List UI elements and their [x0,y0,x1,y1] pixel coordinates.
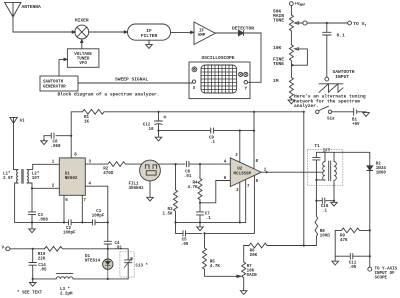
oscilloscope [189,62,250,99]
svg-text:A1: A1 [20,119,26,123]
svg-text:1N34: 1N34 [376,167,387,171]
svg-text:R10: R10 [38,253,46,257]
svg-text:* SEE TEXT: * SEE TEXT [17,290,43,295]
IF filter block [128,24,171,40]
capacitor C11 [335,254,370,259]
resistor R1 [83,109,105,114]
svg-text:.05: .05 [181,243,189,247]
ground (FIL1) [147,181,154,201]
svg-text:.068: .068 [38,219,49,223]
svg-text:FILTER: FILTER [141,33,158,39]
top supply rail [71,112,304,158]
wire L2 top to U1 pin1 [27,164,59,169]
svg-text:C8: C8 [53,141,59,145]
svg-text:T1: T1 [315,145,321,149]
T1 core [329,161,331,181]
capacitor C14 [29,249,36,279]
svg-text:10: 10 [149,128,155,132]
wire U1 pin3 + resistor R2 [85,162,141,167]
svg-text:SAWTOOTH: SAWTOOTH [43,81,64,85]
svg-text:D2: D2 [376,162,382,166]
wire U2 pin3 [239,182,241,223]
ground (C12) [155,131,162,141]
svg-text:10T: 10T [32,177,40,181]
svg-text:.068: .068 [51,145,62,149]
svg-text:L2*: L2* [32,172,40,177]
ground (C3) [29,222,36,232]
IC U2 MC1350P [230,158,261,187]
switch S1a [316,106,332,113]
svg-text:C9: C9 [209,137,215,141]
potentiometer 10K FINE TUNE [289,31,307,65]
wire D2 down to scope terminal [369,230,371,267]
svg-text:GAIN: GAIN [247,274,258,278]
svg-text:1.5K: 1.5K [162,212,173,216]
bottom rail with L3 [33,278,57,280]
svg-text:.01: .01 [184,175,192,179]
ground (R7) [240,289,247,295]
capacitor C10 [316,198,334,203]
wire L3 to D1 [73,278,128,280]
svg-text:REF: REF [300,3,306,7]
ground (C14) [29,279,36,286]
svg-text:VOLTAGE: VOLTAGE [74,53,92,57]
svg-text:MC1350P: MC1350P [234,172,252,176]
capacitor C7 [196,203,203,223]
terminal scope output [368,267,372,271]
wire U2 pin5 / AGC line [176,175,255,233]
svg-text:FIL1: FIL1 [129,182,140,186]
wire detector to scope Y [248,33,261,82]
ground (IF filter) [146,40,153,48]
svg-text:T: T [364,23,366,27]
svg-text:10K: 10K [273,45,282,51]
wire U2 pin7 [245,179,247,222]
wire FIL1 to C6 [158,163,185,165]
mixer [72,25,89,39]
potentiometer 50K MAIN TUNE [289,15,307,31]
terminal VT [6,247,10,251]
wire L2 bottom to U1 pin2 [27,183,59,188]
wire sweep signal [78,82,192,84]
wiper arrow into R7 [237,275,241,277]
svg-text:TO V: TO V [353,21,364,27]
svg-text:MIXER: MIXER [75,18,89,24]
resistor R5 [203,233,237,276]
svg-text:C4: C4 [115,242,121,246]
wire R8 to T1 [315,180,317,201]
svg-text:C1: C1 [96,210,102,214]
svg-text:C13 *: C13 * [136,263,149,268]
svg-text:R9: R9 [340,235,346,239]
svg-text:R2: R2 [103,168,109,172]
antenna [5,2,21,32]
block VFO [67,49,99,68]
T1 internal capacitor [313,152,320,180]
wire [290,6,292,16]
svg-text:R6: R6 [250,249,256,253]
IC U1 NE602 [59,158,85,195]
battery B1 [332,108,366,115]
svg-text:.01: .01 [115,247,123,251]
svg-text:GENERATOR: GENERATOR [43,85,66,89]
resistor R9 [335,228,370,233]
svg-text:TUNE: TUNE [273,61,284,67]
terminal +Vref [290,2,294,6]
T1 secondary [334,152,336,200]
wire U1 pin4 down [85,186,108,241]
svg-text:100pF: 100pF [92,214,105,218]
resistor 1M [289,65,293,99]
wire U1 pin7 [81,195,83,222]
svg-text:NTE614: NTE614 [85,259,101,263]
svg-text:AMP: AMP [198,34,206,38]
svg-text:analyzer.: analyzer. [294,103,319,109]
svg-text:C3: C3 [38,214,44,218]
ground rail left [15,221,108,223]
wire R10 node to trimmer [108,249,128,260]
ceramic filter FIL1 [140,160,161,181]
svg-text:.05: .05 [39,269,47,273]
svg-text:IF: IF [199,29,205,33]
svg-text:R4: R4 [192,181,198,185]
T1 primary [316,152,325,180]
svg-text:INPUT OF: INPUT OF [375,272,396,276]
resistor R4 [198,164,202,203]
svg-text:4.7K: 4.7K [210,265,221,269]
potentiometer R7 [242,246,246,289]
svg-text:D1: D1 [85,255,91,259]
svg-text:4.7K: 4.7K [187,186,198,190]
svg-text:TO Y-AXIS: TO Y-AXIS [375,267,398,271]
svg-text:C5: C5 [182,238,188,242]
trimmer C13 [120,252,134,279]
svg-text:Block diagram of a spectrum an: Block diagram of a spectrum analyzer. [58,92,160,98]
resistor R10 [45,246,108,251]
svg-text:455kHz: 455kHz [129,186,145,191]
diode D2 [367,152,373,230]
svg-text:T: T [5,247,7,251]
svg-text:C11: C11 [349,262,357,266]
svg-text:C2: C2 [66,227,72,231]
svg-text:470Ω: 470Ω [103,172,114,176]
capacitor C6 [186,161,230,166]
svg-text:.05: .05 [349,266,357,270]
capacitor C8 [44,133,71,138]
transformer L1 [17,170,18,183]
RIGHT TUNING NETWORK [288,2,351,104]
ground (C8) [41,136,48,145]
wire mixer to VFO [81,39,83,49]
svg-text:U1: U1 [65,173,71,177]
transformer core [22,169,23,183]
svg-text:L1*: L1* [3,172,11,177]
ground (C11) [332,256,339,265]
svg-text:22K: 22K [38,257,46,261]
wire sawtooth to VFO [59,59,64,76]
svg-text:B1: B1 [352,118,358,122]
ground (B1) [363,112,370,117]
svg-text:IFT: IFT [323,149,331,153]
detector diode [215,30,261,36]
schematic text labels [2,116,398,296]
capacitor C9 [211,128,214,133]
svg-text:U2: U2 [237,168,243,172]
svg-text:OSCILLOSCOPE: OSCILLOSCOPE [201,55,234,61]
transformer L2 [27,170,28,183]
capacitor 0.1 [323,23,331,77]
svg-text:C14: C14 [38,264,46,268]
svg-text:R7: R7 [247,265,253,269]
ground (C10) [331,201,338,206]
wire U1 pin6 [63,195,65,222]
svg-text:100Ω: 100Ω [320,235,331,239]
svg-text:C6: C6 [185,170,191,174]
svg-text:1K: 1K [84,120,90,124]
ground (1M) [288,99,295,104]
svg-text:R3: R3 [167,208,173,212]
svg-text:C10: C10 [321,205,329,209]
wire L1 bottom to ground rail [15,183,18,222]
capacitor C3 [28,188,35,222]
svg-text:.1: .1 [210,141,216,145]
transformer T1 box [308,150,343,186]
svg-text:S1a: S1a [327,118,335,122]
block sawtooth generator [40,76,78,91]
capacitor C12 [155,112,167,131]
wire U2 pin2 [239,131,241,163]
terminal TO VT [348,21,352,25]
resistor R3 [174,164,178,222]
svg-text:R5: R5 [210,261,216,265]
svg-text:C12: C12 [143,124,151,128]
svg-text:SWEEP SIGNAL: SWEEP SIGNAL [115,77,148,83]
svg-text:SCOPE: SCOPE [375,276,388,280]
svg-text:L3 *: L3 * [60,287,71,292]
svg-text:TUNED: TUNED [77,58,90,62]
supply vertical right [303,112,305,246]
svg-text:R8: R8 [320,230,326,234]
ground (C7) [197,222,204,230]
wire C12 to U2 pins [159,130,255,132]
svg-text:100pF: 100pF [63,231,76,235]
svg-text:INPUT: INPUT [335,74,349,80]
svg-text:1N60: 1N60 [376,171,387,175]
svg-text:10K: 10K [247,270,255,274]
MAIN SCHEMATIC [6,106,373,294]
wire VT to R10 [10,248,45,250]
resistor R6 [244,243,304,248]
svg-text:VFO: VFO [79,62,87,66]
wire R9 to C11 line [334,230,336,256]
svg-text:20K: 20K [250,254,258,258]
svg-text:47K: 47K [340,239,348,243]
capacitor C5 [183,231,186,236]
op-amp IF AMP [194,22,215,45]
svg-text:C7: C7 [205,212,211,216]
capacitor C4 [104,241,111,259]
svg-text:NE602: NE602 [65,177,78,181]
svg-text:.1: .1 [322,210,328,214]
svg-text:ANTENNA: ANTENNA [22,4,42,10]
capacitor C1 [93,220,96,225]
wire mixer to filter [89,31,125,33]
sawtooth waveform [319,84,343,93]
ground rail mid [176,221,246,223]
wire antenna to mixer [13,31,75,33]
varactor diode D1 [103,259,113,279]
svg-text:2.2µH: 2.2µH [60,292,73,296]
svg-text:DETECTOR: DETECTOR [232,25,254,31]
terminal sawtooth input [325,77,329,81]
svg-text:+9V: +9V [352,123,360,127]
svg-text:R1: R1 [84,116,90,120]
wire R4 to U2 pin6 [200,181,230,203]
inductor L3 [56,274,73,279]
wire filter to amp [171,31,191,33]
antenna A1 [10,117,18,169]
T1 top line [316,151,369,153]
wire wiper to VT [307,22,348,24]
svg-text:2.5T: 2.5T [3,177,14,181]
wire U2 pin8 [253,112,255,169]
svg-text:0.1: 0.1 [337,33,346,39]
resistor R8 [304,201,318,246]
svg-text:TUNE: TUNE [273,18,284,24]
svg-text:.1: .1 [206,217,212,221]
capacitor C2 [69,220,72,225]
svg-text:1M: 1M [273,78,279,84]
wire U2 output [261,171,322,173]
